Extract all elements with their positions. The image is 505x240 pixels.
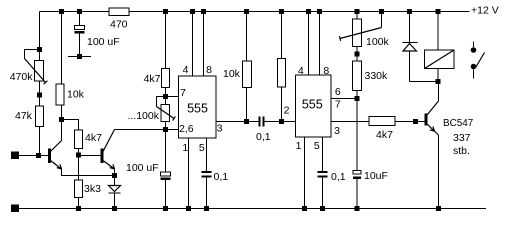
node junction rail D2 (407, 9, 412, 14)
wire U2 pin3 (331, 121, 369, 123)
wire rail to relay (437, 12, 439, 51)
svg-text:2: 2 (284, 104, 290, 116)
wire pot to trigger row (165, 122, 167, 130)
node junction rail wiper (379, 9, 384, 14)
svg-text:470: 470 (110, 19, 128, 31)
wire rail to R281 (281, 12, 283, 59)
svg-text:+12 V: +12 V (471, 5, 499, 17)
svg-text:3: 3 (334, 125, 340, 137)
op-amp U1 555 timer (179, 64, 223, 154)
svg-text:0,1: 0,1 (256, 131, 271, 143)
wire 4k7 to base (395, 121, 425, 123)
wire 470k to 47k (39, 81, 41, 106)
wire coupling cap to U2 pin2 (265, 121, 296, 123)
svg-text:100 uF: 100 uF (126, 162, 159, 174)
node junction rail U2 cap (320, 206, 325, 211)
op-amp U2 555 timer (284, 65, 341, 152)
wire 10k top feed (61, 12, 63, 85)
wire left drop to 470k (39, 12, 41, 62)
svg-text:3k3: 3k3 (84, 183, 101, 195)
wire 470k wiper hook (25, 50, 40, 59)
potentiometer ...100k (127, 105, 169, 123)
svg-text:330k: 330k (365, 70, 389, 82)
wire pot 100k wiper arrow (157, 107, 175, 119)
wire diode bottom to node (410, 81, 439, 83)
svg-text:4: 4 (298, 65, 304, 77)
terminal input pad left (11, 152, 19, 160)
wire collector node to 4k7 (62, 120, 79, 131)
svg-text:stb.: stb. (453, 145, 470, 157)
resistor 10k pullup (223, 61, 252, 88)
wire Q2 emitter to diode node (114, 169, 116, 176)
svg-text:10k: 10k (223, 68, 241, 80)
wire base node down to 3k3 (78, 156, 80, 181)
wire pot 100k wiper hook (157, 97, 166, 107)
wire Q1 collector up (61, 120, 63, 141)
transistor Q2 (101, 130, 115, 170)
wire 330k to pin6 node (356, 91, 358, 99)
wire 470k wiper arrow (25, 59, 46, 83)
wire pin7 to 555 (166, 96, 179, 98)
node junction pot 330k (355, 52, 360, 57)
node junction relay diode (436, 79, 441, 84)
node junction rail U2 pin8 (317, 9, 322, 14)
wire Q1 emitter down (62, 169, 115, 176)
wire U1 pin1 (188, 138, 190, 209)
svg-text:10uF: 10uF (364, 170, 388, 182)
wire 10uF to rail (356, 179, 358, 209)
svg-text:4k7: 4k7 (85, 132, 102, 144)
diode D2 flyback (403, 43, 418, 82)
wire trigger row down to 100uF (165, 130, 167, 173)
svg-text:100 uF: 100 uF (87, 36, 120, 48)
svg-text:0,1: 0,1 (331, 171, 346, 183)
svg-text:8: 8 (323, 65, 329, 77)
node junction rail U2 pin4 (306, 9, 311, 14)
svg-text:10k: 10k (67, 89, 85, 101)
resistor 330k (353, 61, 389, 91)
resistor pull-up pin2 (278, 59, 286, 88)
wire emitter to rail (438, 135, 440, 209)
node junction rail D1 (112, 206, 117, 211)
node junction rail 100k pot (355, 9, 360, 14)
capacitor C 0,1 U2 pin5 (318, 171, 346, 183)
svg-text:5: 5 (314, 140, 320, 152)
wire U2 pin5 (322, 137, 324, 171)
svg-text:7: 7 (335, 99, 341, 111)
wire base node to Q2 (79, 155, 101, 157)
node junction rail 10uF (355, 206, 360, 211)
svg-text:100k: 100k (366, 36, 390, 48)
wire relay to node (437, 69, 439, 82)
svg-text:555: 555 (302, 98, 323, 112)
svg-text:0,1: 0,1 (214, 171, 229, 183)
wire 4k7 to pin7 node (165, 88, 167, 105)
node junction rail relay (436, 9, 441, 14)
node junction rail 10k (59, 9, 64, 14)
node junction base line (36, 153, 41, 158)
wire collector to relay node (438, 82, 440, 102)
node junction pin7 (163, 94, 168, 99)
svg-text:5: 5 (199, 142, 205, 154)
wire base Q1 (19, 155, 48, 157)
wire R281 to pin2 row (281, 87, 283, 122)
svg-text:555: 555 (187, 102, 208, 116)
wire U1 pin5 (206, 138, 208, 171)
capacitor C 100uF bottom (126, 162, 171, 180)
svg-text:470k: 470k (10, 71, 34, 83)
node junction collector Q1 (59, 117, 64, 122)
wire cap to rail (206, 178, 208, 209)
switch relay contact (471, 42, 485, 79)
node junction 100uF stub (77, 54, 82, 59)
svg-text:8: 8 (206, 64, 212, 76)
node junction rail pin4 (190, 9, 195, 14)
transistor Q3 BC547 (425, 101, 474, 157)
node junction rail cap (204, 206, 209, 211)
wire U2 pin4 (308, 12, 310, 76)
svg-text:6: 6 (335, 86, 341, 98)
wire U1 pin8 (203, 12, 205, 77)
resistor 4k7 base BC547 (369, 117, 395, 142)
capacitor C 0,1 pin5 (202, 171, 229, 183)
capacitor C 0,1 coupling (256, 117, 271, 144)
wire timing node down to 10uF (356, 99, 358, 171)
wire cap to rail (322, 178, 324, 209)
potentiometer 100k (353, 19, 390, 48)
svg-text:2,6: 2,6 (179, 123, 194, 135)
wire 47k to base line (39, 127, 41, 156)
wire rail to 4k7 (165, 12, 167, 69)
svg-text:3: 3 (217, 123, 223, 135)
capacitor C 10uF (353, 170, 388, 182)
svg-text:4k7: 4k7 (376, 129, 393, 141)
svg-text:BC547: BC547 (443, 118, 473, 129)
resistor 470 (109, 8, 129, 31)
resistor 47k (15, 106, 44, 127)
wire 100uF minus stub (68, 34, 91, 57)
wire bottom ground rail (15, 208, 486, 210)
wire 10k to collector node (61, 105, 63, 120)
wire U1 pin3 (216, 121, 259, 123)
potentiometer 470k (10, 61, 44, 84)
svg-text:47k: 47k (15, 110, 33, 122)
node junction 470k wiper tap (37, 47, 42, 52)
wire U2 pin1 (304, 137, 306, 209)
node junction rail 10k2 (244, 9, 249, 14)
node junction emitter diode (112, 173, 117, 178)
wire 10k2 to pin3 row (246, 88, 248, 122)
wire wiper to rail (381, 12, 383, 28)
node junction base (413, 119, 418, 124)
wire rail to 100uF (79, 12, 81, 26)
resistor 10k (56, 84, 85, 105)
node junction rail pin8 (201, 9, 206, 14)
svg-text:...100k: ...100k (127, 110, 159, 122)
transistor Q1 (48, 141, 62, 170)
wire U2 pin6 pin7 (331, 98, 357, 100)
wire 4k7 to base node (78, 149, 80, 156)
node junction rail 4k7 (163, 9, 168, 14)
node junction rail pin1 (186, 206, 191, 211)
svg-text:337: 337 (453, 132, 471, 144)
node junction rail emitter (436, 206, 441, 211)
wire top rail left segment (40, 11, 110, 13)
resistor 4k7 pin7 (144, 69, 170, 88)
resistor 3k3 (75, 180, 102, 198)
svg-text:4k7: 4k7 (144, 73, 161, 85)
node junction base Q2 (76, 153, 81, 158)
svg-text:4: 4 (183, 64, 189, 76)
svg-text:1: 1 (182, 142, 188, 154)
relay K1 coil (425, 50, 455, 69)
wire rail to 100k pot (356, 12, 358, 20)
wire U1 pin4 (192, 12, 194, 77)
resistor 4k7 base Q2 (75, 130, 103, 149)
wire pot to 330k (356, 47, 358, 62)
wire 100k wiper arrow (340, 28, 382, 39)
wire rail to 10k2 (246, 12, 248, 62)
node junction pin6 pin7 (355, 96, 360, 101)
wire 3k3 to ground rail (78, 198, 80, 209)
svg-text:1: 1 (296, 140, 302, 152)
wire rail to D2 (409, 12, 411, 43)
node junction rail 100uF (163, 206, 168, 211)
wire Q2 collector to 555 trigger row (115, 129, 179, 131)
node junction trigger row (163, 127, 168, 132)
wire top rail right segment (129, 11, 470, 13)
diode D1 (109, 176, 121, 209)
node junction below 470k (37, 93, 42, 98)
wire U2 pin8 (319, 12, 321, 76)
node junction pin2 (279, 119, 284, 124)
node junction pin3 10k (244, 119, 249, 124)
node junction rail 3k3 (76, 206, 81, 211)
wire 100uF to rail (165, 180, 167, 209)
capacitor C 100uF top (75, 26, 120, 49)
node junction rail U2 pin1 (302, 206, 307, 211)
node junction rail 100uF (77, 9, 82, 14)
terminal ground pad left (11, 205, 19, 213)
node junction rail R281 (279, 9, 284, 14)
svg-text:7: 7 (180, 87, 186, 99)
